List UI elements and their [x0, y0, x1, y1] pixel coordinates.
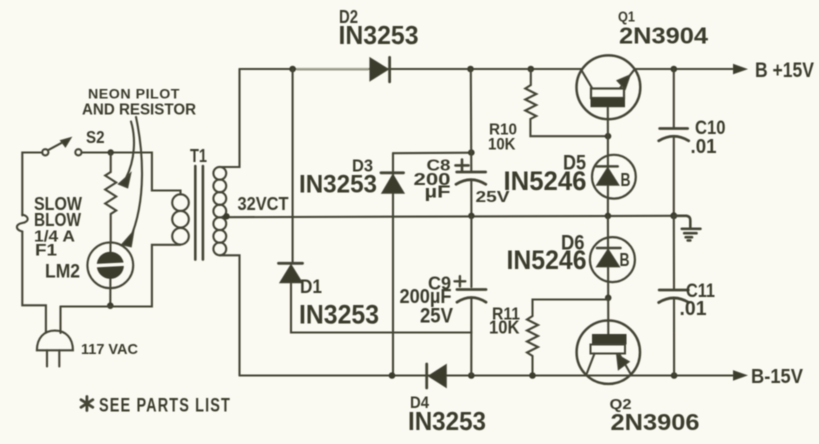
diode D4 — [427, 364, 447, 388]
zener diode D5 — [592, 155, 636, 199]
wire D3 cathode to C8 top — [393, 152, 472, 155]
node bottom rail / C11 — [671, 372, 678, 379]
svg-text:.01: .01 — [691, 136, 717, 158]
lamp LM2 — [87, 242, 133, 305]
svg-text:B: B — [620, 250, 630, 270]
svg-text:LM2: LM2 — [45, 261, 80, 283]
zener diode D6 — [590, 237, 635, 282]
svg-text:.01: .01 — [680, 298, 707, 320]
node top rail / R10 — [528, 66, 535, 73]
wire S2 to transformer — [82, 153, 181, 195]
label C8 plus sign — [456, 160, 469, 172]
svg-text:S2: S2 — [86, 127, 105, 147]
svg-text:D1: D1 — [300, 277, 322, 298]
wire left outer loop — [22, 153, 42, 216]
svg-text:IN3253: IN3253 — [299, 300, 379, 330]
wire secondary bottom to rail — [220, 255, 240, 375]
wire D3 branch vertical — [392, 153, 394, 375]
diode D2 — [370, 57, 390, 81]
node Q2 base junction — [605, 295, 612, 302]
capacitor C9 — [457, 216, 486, 376]
wire bottom of line circuit — [61, 245, 181, 307]
node Q1 base junction — [605, 133, 612, 140]
svg-text:25V: 25V — [420, 305, 453, 328]
resistor neon dropping (unlabeled) — [105, 153, 116, 244]
wire bottom rail — [240, 374, 738, 376]
diode D1 — [279, 263, 303, 282]
arrow B -15V terminal — [734, 371, 747, 380]
wire center node to D6 — [607, 216, 609, 298]
svg-text:NEON PILOT: NEON PILOT — [88, 87, 180, 102]
switch S2 — [42, 138, 81, 156]
node top rail / D1 branch — [289, 66, 296, 73]
svg-text:IN3253: IN3253 — [408, 408, 486, 436]
node S2/resistor junction — [108, 149, 114, 155]
svg-text:B-15V: B-15V — [751, 366, 804, 388]
capacitor C10 — [659, 69, 689, 216]
node D5-D6 on center line — [605, 213, 612, 220]
arrow from label to lamp LM2 — [122, 117, 142, 247]
svg-text:117 VAC: 117 VAC — [81, 341, 138, 358]
capacitor C11 — [659, 216, 689, 376]
transformer T1 core — [195, 166, 203, 260]
wire Q1 base to D5 — [607, 136, 609, 216]
transformer T1 secondary winding — [213, 167, 226, 255]
svg-text:IN5246: IN5246 — [507, 245, 587, 275]
svg-text:F1: F1 — [35, 240, 57, 259]
wire secondary top to rail — [220, 69, 240, 167]
transistor Q2 — [577, 321, 640, 384]
capacitor C8 — [456, 172, 486, 216]
svg-text:2N3904: 2N3904 — [619, 23, 708, 49]
node bottom rail / C9 — [468, 372, 475, 379]
node top rail / C8 branch — [467, 66, 474, 73]
svg-text:2N3906: 2N3906 — [611, 409, 700, 435]
wire left outer lower — [22, 232, 46, 333]
wire Q2 base lead — [607, 298, 609, 334]
wire center tap line — [225, 216, 674, 217]
svg-text:10K: 10K — [489, 316, 520, 337]
arrow from label to resistor — [119, 122, 134, 188]
svg-text:IN3253: IN3253 — [299, 171, 377, 199]
wire D1 branch vertical — [292, 69, 294, 262]
svg-text:T1: T1 — [190, 146, 207, 166]
svg-text:µF: µF — [425, 182, 451, 202]
wire top rail right of Q1 — [635, 68, 738, 70]
wire top rail — [240, 68, 582, 70]
node center tap — [223, 213, 229, 219]
transformer T1 primary winding — [172, 194, 189, 244]
transistor Q1 — [577, 55, 641, 136]
plug 117 VAC — [37, 331, 73, 367]
node bottom rail / D3 — [389, 372, 396, 379]
svg-text:B: B — [621, 170, 631, 190]
svg-text:IN5246: IN5246 — [504, 166, 587, 196]
svg-text:BLOW: BLOW — [34, 209, 81, 230]
wire top rail faded overlay — [297, 68, 368, 70]
svg-text:IN3253: IN3253 — [339, 20, 419, 50]
wire C8 branch — [470, 69, 473, 171]
wire plug right lead — [59, 307, 61, 334]
svg-text:32VCT: 32VCT — [238, 194, 289, 214]
svg-text:AND RESISTOR: AND RESISTOR — [82, 101, 196, 118]
arrow B +15V terminal — [734, 65, 747, 74]
svg-text:SEE PARTS LIST: SEE PARTS LIST — [99, 396, 231, 417]
resistor R11 — [527, 300, 608, 376]
resistor R10 — [525, 69, 605, 136]
ground — [674, 216, 701, 241]
svg-text:B +15V: B +15V — [755, 59, 814, 82]
label C9 plus sign — [455, 276, 466, 286]
node C8 top junction — [468, 149, 475, 156]
node bottom rail / R11 — [529, 372, 536, 379]
node C8 bottom on center line — [468, 213, 474, 219]
node top rail / C10 — [671, 66, 678, 73]
fuse F1 — [17, 215, 28, 232]
asterisk see parts list — [81, 397, 93, 411]
diode D3 — [381, 173, 404, 194]
wire D1 anode to negative node — [291, 283, 472, 333]
node lamp bottom junction — [107, 302, 114, 309]
node center line / ground — [670, 212, 677, 219]
svg-text:10K: 10K — [488, 136, 516, 154]
